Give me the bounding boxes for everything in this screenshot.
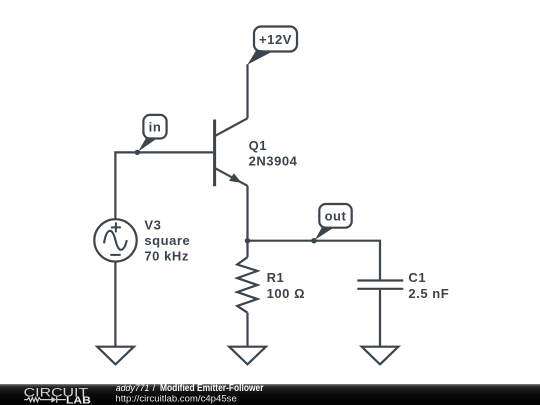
ground GND1 (97, 347, 134, 365)
flag out box (319, 204, 351, 228)
flag +12V pointer (247, 50, 273, 65)
label square (144, 233, 190, 248)
svg-text:addy771: addy771 (116, 383, 150, 393)
node dot out (311, 238, 316, 243)
ground GND3 (362, 347, 399, 365)
svg-text:in: in (149, 120, 162, 135)
label in text (149, 120, 162, 135)
svg-text:70 kHz: 70 kHz (144, 249, 189, 264)
node dot emitter junction (245, 238, 250, 243)
flag in pointer (138, 137, 157, 152)
wire out net horizontal and down to C1 (248, 241, 381, 280)
label 100 ohm (267, 286, 305, 301)
footer bar (0, 384, 540, 405)
ground GND2 (229, 347, 266, 365)
svg-text:Q1: Q1 (249, 138, 267, 153)
transistor Q1 emitter diagonal (215, 168, 247, 186)
node dot in (135, 150, 140, 155)
wire +12V net vertical (246, 64, 248, 118)
label +12V text (259, 32, 292, 47)
transistor Q1 base bar (213, 120, 216, 187)
svg-text:Modified Emitter-Follower: Modified Emitter-Follower (160, 383, 264, 394)
label 2.5 nF (408, 286, 449, 301)
svg-text:V3: V3 (144, 217, 161, 232)
voltage source V3 circle (94, 219, 136, 261)
label 70 kHz (144, 249, 189, 264)
capacitor C1 top plate (357, 279, 403, 281)
transistor Q1 emitter arrow (229, 173, 241, 183)
label C1 (408, 270, 426, 285)
label R1 (267, 270, 285, 285)
voltage source V3 minus sign (110, 254, 120, 256)
capacitor C1 bottom plate (357, 288, 403, 290)
transistor Q1 collector diagonal (215, 118, 247, 136)
label V3 (144, 217, 161, 232)
flag in box (143, 115, 166, 139)
wire C1 bottom stub (379, 290, 381, 347)
svg-text:R1: R1 (267, 270, 285, 285)
svg-text:2.5 nF: 2.5 nF (408, 286, 449, 301)
svg-text:square: square (144, 233, 190, 248)
wire R1 bottom stub (246, 313, 248, 347)
voltage source V3 plus sign (111, 222, 121, 232)
wire emitter vertical (246, 186, 248, 241)
svg-text:C1: C1 (408, 270, 426, 285)
svg-text:+12V: +12V (259, 32, 292, 47)
svg-text:100 Ω: 100 Ω (267, 286, 305, 301)
svg-text:2N3904: 2N3904 (249, 154, 298, 169)
wire R1 top stub (246, 241, 248, 258)
logo CIRCUIT text (24, 385, 89, 399)
svg-text:LAB: LAB (66, 395, 91, 405)
wire V3 bottom to ground (114, 262, 116, 347)
label Q1 (249, 138, 267, 153)
svg-text:http://circuitlab.com/c4p45se: http://circuitlab.com/c4p45se (115, 394, 236, 404)
flag +12V box (254, 27, 297, 52)
svg-text:out: out (325, 209, 347, 224)
voltage source V3 sine wave (104, 231, 127, 250)
label out text (325, 209, 347, 224)
resistor R1 zigzag (237, 257, 257, 313)
flag out pointer (315, 226, 334, 240)
wire base net: from corner to base (115, 152, 213, 219)
logo LAB text (66, 395, 91, 405)
logo resistor-diode squiggle (24, 396, 66, 403)
footer title line (115, 383, 263, 404)
label 2N3904 (249, 154, 298, 169)
